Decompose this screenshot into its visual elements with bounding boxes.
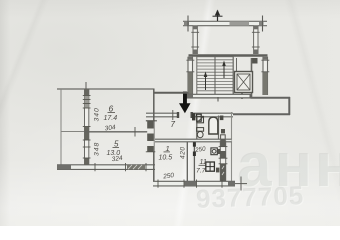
svg-text:1: 1 xyxy=(166,144,170,153)
extension cross left xyxy=(187,16,189,32)
svg-text:250: 250 xyxy=(162,172,175,181)
svg-text:10.5: 10.5 xyxy=(159,155,173,162)
porch left wall (window column) xyxy=(191,26,199,54)
svg-text:348: 348 xyxy=(94,142,101,156)
middle top wall (left of stair block) xyxy=(155,92,189,94)
horizontal wall room1/kitchen top xyxy=(155,139,232,142)
exterior window wall column xyxy=(83,89,91,168)
bottom wall left block xyxy=(57,163,155,171)
entrance black arrow xyxy=(179,92,191,114)
bathtub xyxy=(209,117,218,134)
watermark digits xyxy=(195,180,304,215)
svg-text:7: 7 xyxy=(171,120,176,129)
bathroom left wall xyxy=(196,117,198,141)
extension cross right xyxy=(262,16,264,32)
tick below stairs xyxy=(217,97,219,102)
stair flight arrow left (up) xyxy=(204,72,208,91)
porch right wall (window column) xyxy=(252,26,260,54)
top wall xyxy=(57,88,155,90)
svg-text:420: 420 xyxy=(180,146,187,159)
room1 right wall xyxy=(186,142,188,182)
watermark letters xyxy=(237,130,340,201)
stair block bottom wall xyxy=(183,94,251,98)
balcony divider xyxy=(61,131,85,133)
north/entry arrow above porch xyxy=(213,10,223,22)
stair block left wall xyxy=(186,57,194,97)
kitchen door jambs xyxy=(193,142,196,147)
stair block top wall xyxy=(189,54,268,56)
svg-text:324: 324 xyxy=(111,155,123,163)
vent blob right of stove xyxy=(216,168,219,173)
bottom wall middle block xyxy=(153,177,247,191)
left outer balcony line xyxy=(60,89,62,168)
shaft dark block top right of elevator xyxy=(252,58,258,64)
east outer wall xyxy=(231,112,233,182)
svg-text:250: 250 xyxy=(194,146,207,155)
svg-text:17.4: 17.4 xyxy=(104,115,118,122)
staircase treads xyxy=(197,57,233,95)
elevator shaft wall right xyxy=(251,58,253,97)
hatched closet column xyxy=(146,121,156,153)
kitchen stove xyxy=(206,162,215,171)
kitchen window wall (east) xyxy=(219,139,228,181)
svg-text:340: 340 xyxy=(94,107,101,121)
elevator stub below xyxy=(241,93,243,100)
vent shaft marks right of bathroom xyxy=(220,116,224,121)
toilet xyxy=(197,128,204,138)
dim tick on wall A xyxy=(172,110,174,120)
stair block right wall xyxy=(261,57,269,95)
door cluster right of entrance xyxy=(192,113,195,120)
svg-text:7.7: 7.7 xyxy=(196,168,206,175)
vent blob right of sink xyxy=(218,149,221,154)
porch top wall xyxy=(183,21,267,25)
elevator car xyxy=(235,72,253,93)
room5/room1 shared wall xyxy=(153,89,155,182)
wall between stairs and elevator xyxy=(233,57,236,95)
kitchen sink xyxy=(211,148,217,155)
bath sink xyxy=(197,116,204,122)
kitchen left wall xyxy=(193,142,195,182)
extension cross top left xyxy=(85,82,87,96)
stair center line xyxy=(214,57,216,95)
divider wall rooms 6/5 xyxy=(85,131,155,133)
bathroom right wall xyxy=(218,116,220,140)
stair flight arrow right (up) xyxy=(222,61,226,79)
